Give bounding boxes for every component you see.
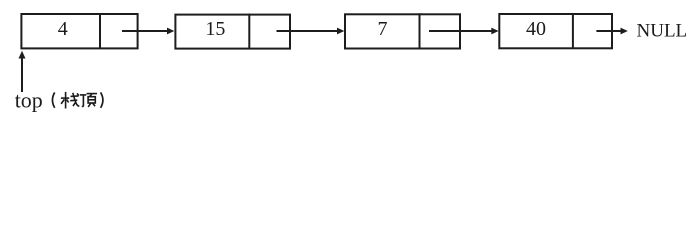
wire: pointer link N3 to N4 (429, 30, 493, 32)
svg-text:NULL: NULL (637, 21, 688, 42)
label（ full-width left paren (52, 92, 54, 107)
node N1 box (21, 14, 137, 48)
wire: pointer link N1 to N2 (122, 30, 169, 32)
wire: top pointer tail (21, 58, 23, 93)
label） full-width right paren (101, 92, 103, 107)
hanzi 栈 (right part 戋) (70, 93, 79, 107)
arrowhead into N2 (167, 28, 174, 35)
svg-text:4: 4 (58, 18, 68, 40)
arrowhead into N4 (491, 28, 498, 35)
node N2 divider (248, 14, 250, 49)
hanzi 栈 (left radical 木) (61, 92, 69, 109)
hanzi 顶 (left part 丁) (80, 95, 86, 107)
wire: pointer link N2 to N3 (277, 30, 339, 32)
svg-text:7: 7 (378, 18, 388, 40)
svg-text:top: top (15, 88, 43, 113)
node N2 box (175, 15, 290, 49)
svg-text:15: 15 (205, 18, 225, 40)
svg-text:40: 40 (526, 18, 546, 40)
arrowhead into NULL (621, 28, 628, 35)
arrowhead of top pointer (points up at N1 bottom) (19, 51, 26, 59)
node N4 box (499, 14, 612, 48)
node N3 box (345, 14, 460, 48)
wire: pointer link N4 to NULL (596, 30, 621, 32)
hanzi 顶 (right part 页) (87, 94, 97, 107)
node N3 divider (419, 13, 421, 48)
node N1 divider (99, 13, 101, 48)
node N4 divider (572, 13, 574, 48)
arrowhead into N3 (337, 28, 344, 35)
